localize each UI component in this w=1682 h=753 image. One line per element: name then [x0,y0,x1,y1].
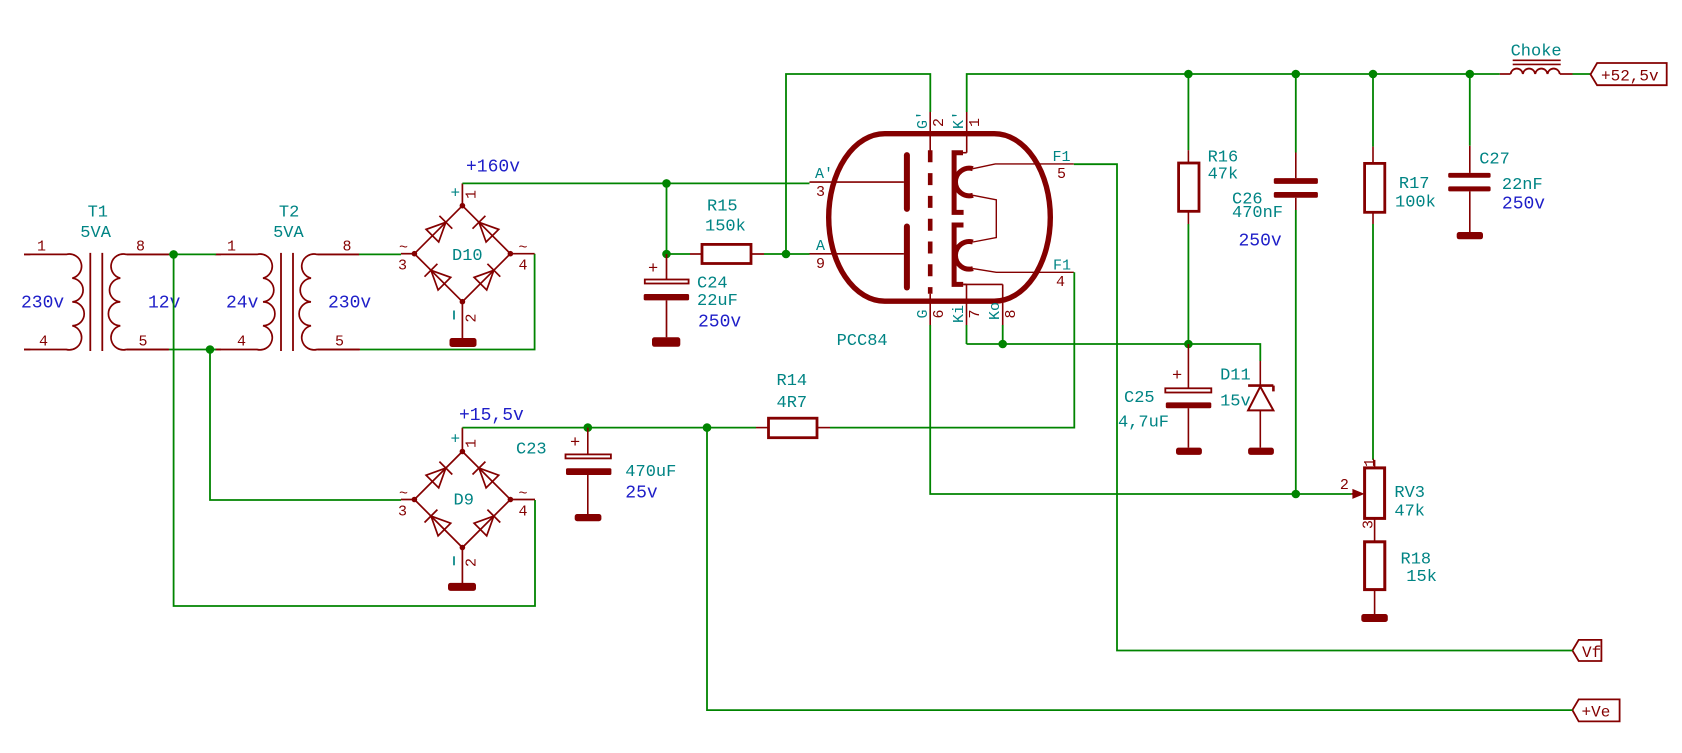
junction T1 pin 8 node [169,250,178,259]
capacitor C23 top plate [566,454,611,458]
wire T1.5 down to D9 AC1 [210,350,401,501]
svg-text:F1: F1 [1053,149,1071,166]
resistor R15 [702,244,751,263]
ground at C23 [575,514,602,521]
svg-text:7: 7 [967,309,984,318]
transformer T2 [215,253,360,351]
svg-text:R14: R14 [777,372,808,391]
svg-text:100k: 100k [1395,194,1436,213]
bridge rectifier D9 pin + lead [461,428,463,452]
junction R15 right / anode A [782,250,791,259]
tube heater wiring [973,164,1074,272]
capacitor C24 bottom plate [644,294,689,300]
bridge rectifier D9 [412,449,514,551]
svg-text:5: 5 [335,334,344,351]
bridge rectifier D9 pin - lead [461,548,463,585]
svg-text:4: 4 [519,258,528,275]
svg-text:+15,5v: +15,5v [459,406,524,426]
ground at D11 [1248,448,1274,455]
tube heater filament lower [955,242,973,270]
tube grid dashed electrode [928,150,933,293]
bridge rectifier D10 pin ~ right lead [510,253,534,255]
transformer T2 pin 1 [216,253,221,255]
svg-text:1: 1 [464,439,481,448]
wire +15,5v from D9 [462,427,756,429]
zener diode D11 triangle [1248,387,1273,411]
wire R15 right link [764,253,810,255]
bridge rectifier D9 pin name - [453,556,455,565]
tube cathode K' bracket [954,153,964,213]
junction RV3 wiper net at C26 [1292,490,1301,499]
svg-text:C24: C24 [697,275,728,294]
svg-text:3: 3 [816,184,825,201]
junction rail at R17 [1369,70,1378,79]
potentiometer RV3 pin 3 lead [1374,518,1376,541]
svg-text:F1: F1 [1053,257,1071,274]
capacitor C24 pin top [666,254,668,279]
capacitor C26 bottom plate [1274,192,1318,198]
svg-text:A': A' [815,166,833,183]
global label Vf [1572,640,1601,661]
svg-text:D10: D10 [452,247,483,266]
svg-text:~: ~ [399,485,408,502]
resistor R14 pin right [817,427,830,429]
svg-text:+52,5v: +52,5v [1601,67,1659,85]
tube cathode K bracket [954,225,963,284]
svg-text:25v: 25v [625,484,658,504]
capacitor C25 top plate [1165,388,1211,392]
svg-text:2: 2 [464,558,481,567]
svg-text:22uF: 22uF [697,292,738,311]
svg-text:250v: 250v [698,313,741,333]
svg-text:4,7uF: 4,7uF [1118,414,1169,433]
wire G6 to RV3 wiper [930,325,1351,494]
resistor R15 pin right [751,253,764,255]
resistor R16 [1179,163,1199,211]
svg-text:Choke: Choke [1511,43,1562,62]
svg-text:T2: T2 [279,204,299,223]
svg-text:12v: 12v [148,294,181,314]
tube pin Ko 8 link [963,283,1003,285]
svg-text:150k: 150k [705,218,746,237]
junction cathode net at Ko [998,340,1007,349]
bridge rectifier D10 pin name - [453,311,455,320]
svg-text:D11: D11 [1220,367,1251,386]
wire F1 pin 5 to Vf [1074,164,1573,650]
capacitor C27 pin bottom [1469,191,1471,232]
svg-text:22nF: 22nF [1502,176,1543,195]
resistor R18 pin bottom [1374,590,1376,614]
transformer T1 pin 5 [127,349,169,351]
svg-text:RV3: RV3 [1394,484,1425,503]
ground at R18 [1361,614,1388,622]
bridge rectifier D10 pin + lead [461,183,463,205]
svg-text:1: 1 [227,239,236,256]
svg-text:Ko: Ko [987,302,1004,320]
ground at D10 minus [450,338,477,347]
svg-text:R15: R15 [707,198,738,217]
svg-text:5VA: 5VA [80,224,111,243]
resistor R17 [1365,163,1385,212]
resistor R17 pin top [1372,74,1374,147]
svg-text:3: 3 [1361,520,1378,529]
potentiometer RV3 wiper arrow [1352,489,1364,499]
transformer T1 pin 1 [24,253,30,255]
junction R15 left / C24 [662,250,671,259]
tube pin Ki 7 lead [966,284,968,325]
svg-text:230v: 230v [21,294,64,314]
svg-text:3: 3 [398,504,407,521]
svg-text:6: 6 [931,309,948,318]
capacitor C23 pin top [587,428,589,454]
svg-text:+: + [648,260,658,279]
transformer T1 [24,253,169,351]
bridge rectifier D9 pin ~ right lead [510,499,535,501]
svg-text:C27: C27 [1479,150,1510,169]
tube pin A' 3 lead [810,181,904,183]
svg-text:9: 9 [816,256,825,273]
svg-text:~: ~ [519,240,528,257]
tube anode A' plate [904,155,910,209]
svg-text:4: 4 [1056,274,1065,291]
svg-text:1: 1 [37,239,46,256]
wire Ko drop [1002,325,1004,344]
svg-text:5VA: 5VA [273,224,304,243]
svg-text:4: 4 [237,334,246,351]
potentiometer RV3 pin 1 lead [1374,460,1376,468]
svg-text:T1: T1 [88,204,108,223]
svg-text:K': K' [951,111,968,129]
wire T1.8 to T2.1 [169,253,216,255]
svg-text:2: 2 [931,118,948,127]
bridge rectifier D10 [412,203,514,305]
capacitor C25 pin bottom [1187,408,1189,447]
capacitor C24 pin bottom [666,300,668,337]
wire C24/R15 drop [666,183,668,254]
svg-text:4: 4 [519,504,528,521]
wire cathode net horizontal [967,344,1261,361]
resistor R17 pin bottom [1372,212,1374,224]
svg-text:250v: 250v [1239,232,1282,252]
transformer T2 pin 8 [318,253,359,255]
svg-text:~: ~ [519,485,528,502]
bridge rectifier D9 pin ~ left lead [401,499,414,501]
svg-text:~: ~ [399,240,408,257]
resistor R16 pin bottom [1187,211,1189,224]
svg-text:15k: 15k [1406,568,1437,587]
capacitor C23 pin bottom [587,475,589,514]
junction T1.5 node [206,345,215,354]
wire T2.8 to D10 AC1 [359,253,401,255]
svg-text:+: + [570,434,580,453]
zener diode D11 pin bottom [1259,410,1261,447]
svg-text:C23: C23 [516,441,547,460]
wire T1.8 down-left to D9 AC2 [174,254,535,606]
svg-text:4: 4 [39,334,48,351]
capacitor C25 pin top [1187,344,1189,388]
svg-text:A: A [816,238,825,255]
svg-text:47k: 47k [1394,503,1425,522]
junction cathode net at C25 [1184,340,1193,349]
svg-text:4R7: 4R7 [777,394,808,413]
svg-text:8: 8 [1003,309,1020,318]
svg-text:+: + [1172,367,1182,386]
junction +160v at C24 [662,179,671,188]
svg-text:PCC84: PCC84 [837,332,888,351]
svg-text:G: G [915,309,932,318]
svg-text:47k: 47k [1208,166,1239,185]
tube anode A plate [904,227,910,288]
resistor R16 pin top [1187,74,1189,150]
svg-text:2: 2 [464,313,481,322]
capacitor C26 pin bottom [1295,198,1297,210]
zener diode D11 pin top [1259,361,1261,386]
svg-text:1: 1 [464,190,481,199]
resistor R15 pin left [690,253,702,255]
capacitor C27 bottom plate [1448,186,1490,191]
wire R14 to F1 pin 4 [830,272,1074,427]
svg-text:+: + [451,430,461,448]
tube pin K' 1 lead [966,112,968,153]
svg-text:3: 3 [398,258,407,275]
junction +15,5v at C23 [584,423,593,432]
wire T1.5 to T2.4 [169,349,216,351]
wire T2.5 to D10 AC2 [360,254,535,350]
capacitor C26 pin top [1295,74,1297,153]
ground at D9 minus [448,583,476,591]
svg-text:5: 5 [138,334,147,351]
capacitor C27 top plate [1448,173,1490,178]
capacitor C23 bottom plate [566,468,611,475]
svg-text:2: 2 [1340,477,1349,494]
tube pin A 9 lead [810,253,904,255]
svg-text:R17: R17 [1399,175,1430,194]
junction rail at R16 [1184,70,1193,79]
svg-text:8: 8 [342,239,351,256]
ground at C27 [1457,232,1483,239]
capacitor C24 top plate [645,280,689,284]
zener diode D11 cathode bar [1248,384,1273,387]
svg-text:1: 1 [967,118,984,127]
transformer T1 pin 4 [24,349,30,351]
svg-text:C25: C25 [1124,389,1155,408]
svg-text:5: 5 [1057,166,1066,183]
wire +160v from D10 to tube anode A' [462,182,809,184]
transformer T1 pin 8 [127,253,174,255]
inductor Choke [1500,73,1511,75]
resistor R14 pin left [756,427,769,429]
svg-text:+160v: +160v [466,158,520,178]
capacitor C27 pin top [1469,74,1471,146]
ground at C25 [1176,448,1202,455]
svg-text:R18: R18 [1401,551,1432,570]
wire Ki to cathode net [966,325,968,344]
junction rail at C27 [1466,70,1475,79]
bridge rectifier D10 pin - lead [461,302,463,339]
resistor R14 [769,418,818,438]
capacitor C25 bottom plate [1166,402,1212,408]
wire choke to +52,5v tag [1573,73,1591,75]
junction rail at C26 [1292,70,1301,79]
svg-text:15v: 15v [1220,392,1251,411]
tube heater filament upper [955,168,973,196]
svg-text:+Ve: +Ve [1582,704,1611,722]
transformer T2 pin 4 [216,349,221,351]
svg-text:Ki: Ki [951,305,968,323]
svg-text:Vf: Vf [1582,644,1601,662]
wire grid G' feedback [786,74,930,254]
global label +Ve [1572,699,1619,721]
potentiometer RV3 [1365,468,1385,519]
wire cathode K' to +52.5v rail [967,74,1500,112]
svg-text:470nF: 470nF [1232,204,1283,223]
junction +15,5v at +Ve branch [703,423,712,432]
bridge rectifier D10 pin ~ left lead [401,253,414,255]
svg-text:8: 8 [136,239,145,256]
tube pin G' 2 lead [929,112,931,151]
svg-text:D9: D9 [454,492,474,511]
svg-text:G': G' [915,111,932,129]
capacitor C26 top plate [1274,178,1318,184]
svg-text:230v: 230v [328,294,371,314]
ground at C24 [652,337,680,347]
resistor R18 [1365,542,1385,590]
tube PCC84 envelope [829,134,1051,302]
tube pin G 6 lead [929,294,931,325]
global label +52,5v [1591,63,1667,85]
svg-text:+: + [451,185,461,203]
wire R15 left link [667,253,691,255]
svg-text:1: 1 [1362,458,1379,467]
svg-text:24v: 24v [226,294,259,314]
transformer T2 pin 5 [318,349,360,351]
svg-text:250v: 250v [1502,195,1545,215]
wire +Ve from +15,5v [707,428,1572,710]
svg-text:470uF: 470uF [625,463,676,482]
